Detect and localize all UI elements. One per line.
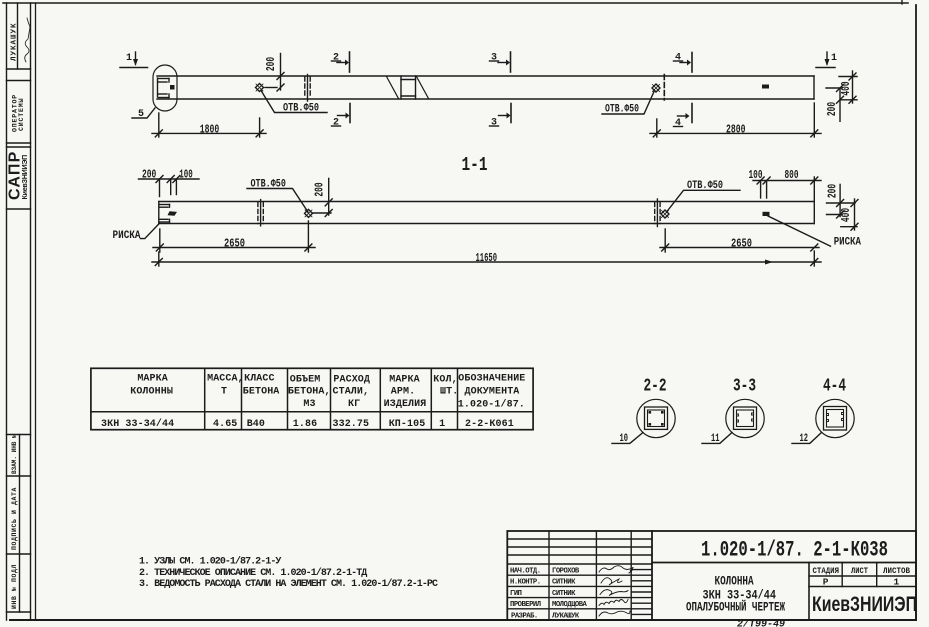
strip box ПОДПИСЬ И ДАТА	[7, 553, 31, 555]
svg-text:ШТ.: ШТ.	[440, 387, 458, 398]
svg-text:ГИП: ГИП	[510, 590, 522, 598]
svg-text:10: 10	[620, 433, 629, 445]
svg-text:НАЧ.ОТД.: НАЧ.ОТД.	[510, 568, 541, 576]
dims 100 800 mid right	[753, 180, 821, 182]
svg-text:4: 4	[675, 118, 681, 129]
mid view left end channel detail	[160, 204, 170, 206]
svg-text:100: 100	[179, 167, 193, 181]
title block role labels	[510, 568, 541, 621]
dim 200 mid left	[313, 212, 331, 214]
svg-text:3КН 33-34/44: 3КН 33-34/44	[101, 418, 174, 430]
svg-text:200: 200	[313, 182, 327, 196]
svg-text:1: 1	[894, 577, 900, 588]
svg-text:ЛИСТОВ: ЛИСТОВ	[883, 566, 910, 576]
svg-text:2650: 2650	[224, 236, 245, 250]
svg-text:СТАДИЯ: СТАДИЯ	[813, 566, 840, 576]
svg-text:1800: 1800	[200, 122, 220, 136]
doc number cell	[652, 562, 916, 564]
dim 2650 right	[664, 229, 666, 252]
svg-text:КП-105: КП-105	[389, 419, 426, 430]
section mark 1 left	[126, 53, 132, 64]
embedded mark on column right	[762, 85, 769, 89]
svg-text:В40: В40	[247, 419, 265, 430]
spec table frame	[91, 368, 533, 429]
svg-text:РАЗРАБ.: РАЗРАБ.	[511, 612, 538, 620]
strip box ИНВ № ПОДЛ	[7, 611, 31, 613]
svg-text:МАРКА: МАРКА	[137, 374, 168, 385]
leader РИСКА left	[141, 223, 160, 238]
svg-text:200: 200	[142, 167, 156, 181]
svg-text:1: 1	[831, 53, 837, 64]
joint mark top view left	[307, 75, 309, 102]
hole marker mid right	[661, 210, 669, 218]
strip box ВЗАМ. ИНВ №	[7, 434, 31, 436]
title block signature rows	[507, 574, 652, 576]
dim 400 right of mid view	[854, 199, 856, 230]
handwritten mark below border	[737, 619, 785, 627]
svg-text:РИСКА: РИСКА	[113, 230, 141, 242]
svg-text:ОБОЗНАЧЕНИЕ: ОБОЗНАЧЕНИЕ	[458, 374, 525, 385]
svg-text:2/Т99-49: 2/Т99-49	[737, 619, 785, 627]
leader ОТВ.Ф50 mid left	[247, 189, 308, 213]
svg-text:800: 800	[785, 168, 799, 182]
svg-text:Т: Т	[221, 386, 227, 397]
section mark 3 top	[491, 53, 497, 64]
svg-text:2. ТЕХНИЧЕСКОЕ ОПИСАНИЕ СМ. 1.: 2. ТЕХНИЧЕСКОЕ ОПИСАНИЕ СМ. 1.020-1/87.2…	[139, 567, 367, 579]
section 4-4 title	[823, 377, 846, 397]
svg-text:ОТВ.Ф50: ОТВ.Ф50	[283, 103, 319, 115]
page top border	[3, 2, 908, 4]
svg-text:ИЗДЕЛИЯ: ИЗДЕЛИЯ	[384, 399, 427, 410]
svg-text:ИНВ № ПОДЛ: ИНВ № ПОДЛ	[11, 564, 18, 609]
section mark 2 bottom	[349, 104, 351, 123]
svg-text:КиевЗНИИЭП: КиевЗНИИЭП	[812, 593, 917, 616]
title block left columns	[548, 531, 550, 620]
svg-text:2650: 2650	[731, 236, 752, 250]
svg-text:СТАЛИ,: СТАЛИ,	[333, 387, 370, 398]
svg-text:ВЗАМ. ИНВ №: ВЗАМ. ИНВ №	[11, 434, 18, 474]
svg-text:АРМ.: АРМ.	[391, 387, 415, 398]
svg-text:КОЛ,: КОЛ,	[433, 375, 457, 386]
svg-text:1.86: 1.86	[293, 419, 317, 430]
page right border	[915, 5, 917, 620]
hole marker 2	[652, 84, 660, 92]
svg-text:ДОКУМЕНТА: ДОКУМЕНТА	[465, 387, 520, 398]
left stamp strip rails	[6, 3, 8, 620]
joint mark top view right	[663, 75, 665, 101]
svg-text:КГ: КГ	[348, 399, 360, 410]
svg-text:ОПАЛУБОЧНЫЙ ЧЕРТЕЖ: ОПАЛУБОЧНЫЙ ЧЕРТЕЖ	[686, 600, 785, 615]
svg-text:3. ВЕДОМОСТЬ РАСХОДА СТАЛИ НА: 3. ВЕДОМОСТЬ РАСХОДА СТАЛИ НА ЭЛЕМЕНТ СМ…	[139, 578, 438, 590]
svg-text:3: 3	[491, 118, 497, 129]
svg-text:5: 5	[138, 109, 144, 120]
svg-text:3: 3	[491, 53, 497, 64]
strip box ЛУКАШУК	[7, 68, 31, 70]
leader 10	[612, 433, 643, 444]
dim 400 right of top view	[839, 76, 857, 78]
svg-text:332.75: 332.75	[333, 419, 370, 430]
joint mark mid view right	[656, 199, 658, 227]
section 4-4 circle	[816, 399, 854, 437]
svg-text:БЕТОНА,: БЕТОНА,	[288, 387, 331, 398]
svg-text:КОЛОННА: КОЛОННА	[715, 574, 754, 589]
organization cell КиевЗНИИЭП	[812, 593, 917, 616]
svg-text:400: 400	[839, 208, 853, 222]
svg-text:Н.КОНТР.: Н.КОНТР.	[510, 579, 541, 587]
right end hole level extension	[826, 87, 842, 89]
riska mark left	[168, 211, 178, 216]
section mark 2 top	[333, 53, 339, 64]
strip signature squiggle	[25, 18, 30, 62]
section mark 4 top	[675, 53, 681, 64]
svg-text:4-4: 4-4	[823, 377, 846, 397]
svg-text:КОЛОННЫ: КОЛОННЫ	[130, 386, 173, 397]
svg-text:МАРКА: МАРКА	[389, 375, 420, 386]
title block names	[552, 568, 588, 621]
top view column body	[157, 75, 814, 77]
project name cell	[808, 563, 810, 621]
svg-text:ЛУКАШУК: ЛУКАШУК	[11, 22, 19, 61]
narrow date column subdivisions	[631, 569, 652, 571]
title block top narrow rows	[507, 538, 652, 540]
hole marker 1	[256, 84, 264, 92]
stage cells	[809, 575, 916, 577]
svg-text:КиевЗНИИЭП: КиевЗНИИЭП	[20, 155, 29, 200]
hole marker mid left	[305, 209, 313, 217]
section 3-3 title	[733, 377, 756, 397]
svg-text:1: 1	[126, 53, 132, 64]
svg-text:200: 200	[825, 102, 839, 116]
leader ОТВ.Ф50 mid right	[667, 190, 741, 212]
svg-text:МАССА,: МАССА,	[207, 374, 244, 385]
dim 2800	[656, 119, 658, 137]
svg-text:1.020-1/87. 2-1-К038: 1.020-1/87. 2-1-К038	[701, 538, 888, 563]
section 2-2 title	[644, 377, 667, 397]
leader РИСКА right	[768, 216, 831, 246]
detail balloon 5	[153, 65, 177, 111]
mid view column body	[159, 201, 815, 203]
table data row	[101, 418, 514, 430]
svg-text:1. УЗЛЫ СМ. 1.020-1/87.2-1-У: 1. УЗЛЫ СМ. 1.020-1/87.2-1-У	[139, 556, 281, 568]
svg-text:100: 100	[749, 168, 763, 182]
section title 1-1	[462, 154, 488, 176]
svg-text:ЛИСТ: ЛИСТ	[851, 566, 868, 576]
svg-text:ПРОВЕРИЛ: ПРОВЕРИЛ	[510, 601, 541, 609]
dim 2650 left	[159, 229, 161, 252]
svg-text:2-2-К061: 2-2-К061	[465, 419, 514, 430]
joint mark mid view left	[260, 200, 262, 226]
svg-text:МОЛОДЦОВА: МОЛОДЦОВА	[552, 601, 588, 609]
section 2-2 circle	[637, 399, 675, 437]
svg-text:1-1: 1-1	[462, 154, 488, 176]
svg-text:СИСТЕМЫ: СИСТЕМЫ	[18, 98, 25, 131]
svg-text:2800: 2800	[726, 122, 746, 136]
leader ОТВ.Ф50 top left	[261, 91, 327, 113]
top border tick	[901, 0, 903, 4]
svg-text:СИТНИК: СИТНИК	[552, 590, 576, 598]
svg-text:400: 400	[839, 81, 853, 95]
svg-text:2: 2	[333, 118, 339, 129]
balloon end detail	[159, 78, 170, 80]
signature squiggles	[599, 566, 633, 616]
svg-text:ОБЪЕМ: ОБЪЕМ	[290, 375, 321, 386]
notes	[139, 556, 438, 590]
svg-text:ОТВ.Ф50: ОТВ.Ф50	[251, 179, 286, 191]
dim 1800	[158, 113, 160, 137]
dims 200 100 mid left	[139, 178, 200, 180]
title block frame	[507, 531, 916, 620]
cut symbol on column	[400, 76, 402, 99]
svg-text:11650: 11650	[476, 251, 498, 265]
frame left border	[35, 3, 37, 620]
svg-text:12: 12	[800, 433, 809, 445]
svg-text:СИТНИК: СИТНИК	[552, 579, 576, 587]
svg-text:1.020-1/87.: 1.020-1/87.	[458, 398, 525, 410]
section mark 1 right	[831, 53, 837, 64]
section 3-3 circle	[726, 399, 764, 437]
svg-text:ОТВ.Ф50: ОТВ.Ф50	[605, 104, 639, 116]
dim 11650	[158, 252, 160, 266]
svg-text:3-3: 3-3	[733, 377, 756, 397]
svg-text:ЛУКАШУК: ЛУКАШУК	[552, 612, 580, 620]
svg-text:200: 200	[264, 57, 278, 71]
strip box САПР КиевЗНИИЭП	[7, 146, 31, 148]
svg-text:РАСХОД: РАСХОД	[333, 375, 370, 386]
page bottom border	[10, 619, 916, 621]
section mark 3 bottom	[510, 104, 512, 123]
dim 200 top view	[280, 54, 282, 91]
table header texts	[130, 374, 525, 411]
svg-text:2-2: 2-2	[644, 377, 667, 397]
svg-text:БЕТОНА: БЕТОНА	[243, 386, 280, 397]
svg-text:РИСКА: РИСКА	[834, 237, 862, 249]
svg-text:200: 200	[826, 184, 840, 198]
svg-text:М3: М3	[303, 399, 315, 410]
svg-text:Р: Р	[823, 577, 829, 588]
dim 200 right of mid view	[827, 202, 856, 204]
svg-text:11: 11	[711, 433, 720, 445]
leader ОТВ.Ф50 top right	[602, 91, 655, 115]
section mark 4 bottom	[691, 104, 693, 123]
leader and label 5	[132, 108, 155, 118]
svg-text:ОТВ.Ф50: ОТВ.Ф50	[687, 180, 723, 192]
svg-text:1: 1	[439, 419, 445, 430]
leader 12	[792, 433, 822, 444]
leader 11	[702, 433, 732, 444]
svg-text:4.65: 4.65	[213, 419, 237, 430]
svg-text:ГОРОХОВ: ГОРОХОВ	[552, 568, 580, 576]
riska mark right	[763, 212, 770, 216]
svg-text:КЛАСС: КЛАСС	[244, 374, 275, 385]
strip box ОПЕРАТОР СИСТЕМЫ	[7, 80, 31, 82]
svg-text:ПОДПИСЬ И ДАТА: ПОДПИСЬ И ДАТА	[11, 487, 18, 550]
dim 200 right of top view	[839, 88, 841, 121]
